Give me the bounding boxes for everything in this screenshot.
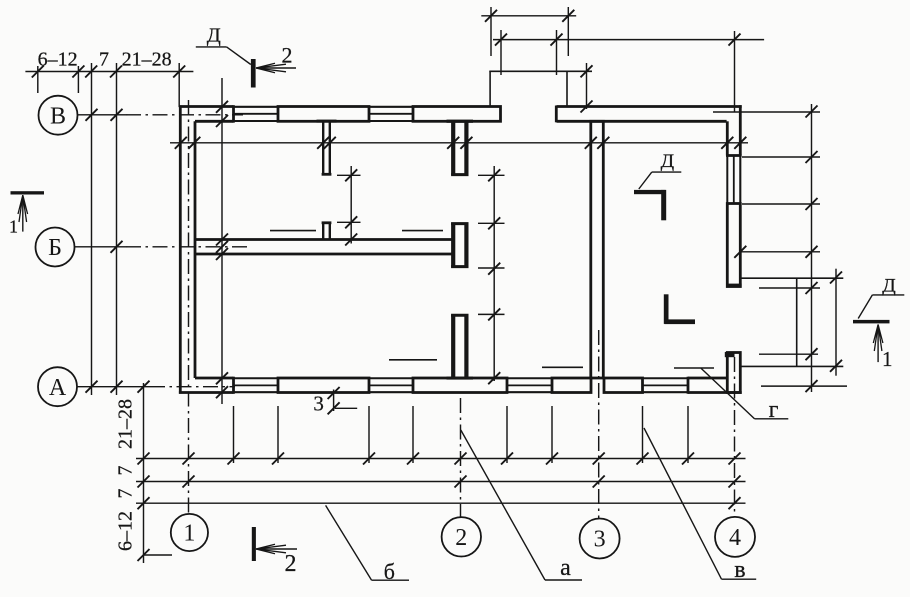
section mark 1 (right): cutting-plane bar <box>853 320 890 324</box>
section mark 2 (top): arrow <box>256 67 296 69</box>
section mark 1 (left): cutting-plane bar <box>11 191 45 194</box>
partition: upper-left rooms divider, stub above axis B partition <box>322 222 324 239</box>
extension line x568 <box>567 7 569 56</box>
wall: left exterior wall (axis 1) <box>179 105 182 393</box>
axis 4 extension above plan <box>734 31 736 112</box>
extension line x179 to wall corner <box>178 63 180 107</box>
partition: axis B partition bottom line <box>194 253 452 256</box>
radiator line big room <box>389 359 437 361</box>
right dimension rail 2 (alcove) <box>835 269 837 376</box>
radiator line right room <box>674 367 714 369</box>
bottom dimension line 1 (openings chain) <box>136 458 746 460</box>
window W2 in top wall <box>369 106 413 108</box>
extension line x501 <box>500 30 502 75</box>
radiator line room2 <box>402 230 443 232</box>
leader г <box>701 368 755 419</box>
svg-text:2: 2 <box>282 43 293 68</box>
partition: upper-left rooms divider, upper segment <box>322 121 324 174</box>
alcove: right wall line <box>796 278 798 366</box>
extension line y288 (wall end) <box>759 287 820 289</box>
ticks on axis B <box>86 109 98 121</box>
wall: right exterior wall upper solid part <box>739 105 742 155</box>
extension line y157 (window top) <box>742 156 820 158</box>
bottom boundary line of 6-12 span <box>144 554 173 556</box>
extension line x491 <box>490 7 492 56</box>
ticks on extension x586 <box>581 65 593 77</box>
svg-text:В: В <box>50 103 66 129</box>
ticks dim line 2 <box>183 476 195 488</box>
extension line x38 <box>37 66 39 93</box>
vestibule: front (top) wall line + extension <box>489 70 592 72</box>
svg-text:а: а <box>560 555 571 581</box>
dimension line top-left <box>25 71 193 73</box>
wall pier: bottom wall below partition column <box>413 378 507 393</box>
window W4 in bottom wall <box>369 377 413 379</box>
partition: axis B partition top line <box>194 238 452 241</box>
internal horizontal dimension line y143 <box>170 142 748 144</box>
svg-text:Б: Б <box>48 235 62 261</box>
wall pier: bottom wall corner pier (axis A) <box>179 391 234 394</box>
axis circle 4 <box>715 517 755 557</box>
flag Д (middle, upper-right room) <box>652 171 682 173</box>
axis line 3 (vertical) <box>598 330 600 519</box>
svg-text:7: 7 <box>115 489 137 499</box>
wall pier: bottom wall between windows W3-W4 <box>278 378 369 393</box>
section mark 2 (top): cutting-plane bar <box>251 59 256 88</box>
ticks on top-left dimension line <box>32 66 44 78</box>
flag Д (right) <box>872 294 904 296</box>
partition column x460: lower segment <box>451 314 455 378</box>
jamb: entrance opening right jamb <box>555 106 558 123</box>
junction bar: partition x326 at top wall <box>317 120 337 123</box>
ticks on x222 chain line <box>216 101 228 113</box>
vestibule: right thin wall <box>566 71 568 106</box>
section mark 1 (right): arrow <box>877 325 879 363</box>
wall pier: top wall right section <box>557 105 742 108</box>
extension stubs to room dim line <box>337 174 361 176</box>
bottom dimension line 2 (axis distances) <box>136 481 746 483</box>
svg-text:А: А <box>49 375 67 401</box>
radiator line room1 <box>270 230 316 232</box>
junction bar: column x460 at bottom wall <box>447 377 474 380</box>
svg-text:Д: Д <box>661 151 675 172</box>
wall pier: top wall between windows W1-W2 <box>278 107 369 122</box>
tick dim line 3 <box>729 497 741 509</box>
svg-text:2: 2 <box>285 551 297 577</box>
svg-text:в: в <box>734 557 745 583</box>
section mark 2 (bottom): cutting-plane bar <box>252 527 256 561</box>
extension line y386 (bottom corner) <box>761 385 847 387</box>
axis circle 2 <box>442 517 481 556</box>
axis line 4 (vertical) <box>734 357 736 517</box>
svg-text:7: 7 <box>99 49 109 71</box>
ticks on hall dim line <box>488 169 500 181</box>
door mark L1 (upper-right room) <box>634 190 665 194</box>
svg-text:3: 3 <box>594 527 606 553</box>
axis circle Б <box>36 228 75 267</box>
wall pier: bottom wall left of interior wall <box>552 378 591 393</box>
ticks on axis A <box>86 381 98 393</box>
axis circle 3 <box>580 519 620 559</box>
internal vertical dimension line in hall <box>493 166 495 381</box>
section mark 1 (left): arrow <box>22 195 24 232</box>
alcove: bottom wall line + extension to rails <box>741 365 843 367</box>
svg-text:21–28: 21–28 <box>115 399 137 449</box>
partition column x460: middle segment <box>451 223 455 268</box>
flag Д (top-left) <box>196 46 227 48</box>
axis line Б (horizontal) <box>75 246 126 248</box>
radiator line hall <box>542 366 583 368</box>
axis line 2 (vertical) <box>460 398 462 517</box>
wall pier: top wall left of entrance opening <box>413 107 501 122</box>
section mark 2 (bottom): arrow <box>256 548 297 550</box>
wall pier: bottom wall right of interior wall <box>604 378 643 393</box>
svg-text:Д: Д <box>207 25 221 47</box>
long extension line x116 <box>116 63 118 395</box>
extension stubs to hall dim line <box>478 174 505 176</box>
door mark L2 (lower-right room) <box>664 294 669 324</box>
ticks right rail 1 <box>806 106 818 118</box>
extension line y354 (corner piece top) <box>759 353 818 355</box>
leader б <box>326 505 372 580</box>
ticks dim line 1 <box>183 453 195 465</box>
svg-text:Д: Д <box>882 276 896 297</box>
extension lines from wall openings down to dimension line 1 <box>233 406 235 463</box>
wall pier: bottom wall right end <box>688 377 727 380</box>
axis circle B <box>39 96 78 135</box>
tick on axis Б <box>111 241 123 253</box>
ticks on internal dim y143 <box>175 137 187 149</box>
axis circle A <box>38 367 77 406</box>
svg-text:7: 7 <box>115 466 137 476</box>
wall pier: top wall corner pier <box>179 105 234 108</box>
svg-text:1: 1 <box>882 347 893 371</box>
right dimension rail 1 <box>811 104 813 392</box>
window W6 in bottom wall <box>643 377 689 379</box>
svg-text:3: 3 <box>313 392 324 416</box>
extension line y252 <box>741 251 820 253</box>
svg-text:г: г <box>769 397 779 423</box>
window W3 in bottom wall <box>234 377 279 379</box>
extension line y112 (top corner) <box>713 111 820 113</box>
svg-text:4: 4 <box>729 525 741 551</box>
leader в <box>644 428 722 579</box>
svg-text:6–12: 6–12 <box>38 49 78 71</box>
svg-text:1: 1 <box>9 217 18 237</box>
axis line B (horizontal) <box>78 114 127 116</box>
vertical dimension rail bottom-left <box>143 383 145 563</box>
callout 3 (tick mark note) <box>333 390 335 412</box>
axis circle 1 <box>171 514 208 551</box>
partition column x460: upper segment <box>451 121 455 175</box>
extension line x78 <box>77 66 79 93</box>
wall stub: door jamb flare at bottom-right corner piece <box>725 352 735 357</box>
alcove: top wall line + extension to rails <box>741 277 843 279</box>
extension line x556 <box>556 30 558 75</box>
svg-text:6–12: 6–12 <box>115 511 137 551</box>
window W7 in right wall <box>726 156 728 204</box>
ticks right rail 2 <box>830 272 842 284</box>
axis line A (horizontal) <box>77 386 150 388</box>
svg-text:1: 1 <box>183 521 195 547</box>
wall cap: right wall middle part bottom end <box>726 284 742 288</box>
dimension line over vestibule (lower, to axis 4) <box>493 39 764 41</box>
wall: right exterior wall bottom corner piece <box>727 353 740 393</box>
extension line y204 (window bottom) <box>742 203 820 205</box>
leader а <box>461 430 545 580</box>
svg-text:21–28: 21–28 <box>122 49 172 71</box>
axis line 1 (vertical) <box>188 100 190 514</box>
wall: right exterior wall middle solid part <box>727 204 740 287</box>
internal vertical dimension line in upper-left room <box>350 166 352 244</box>
extension line x586 <box>586 63 588 109</box>
internal chain extension line x222 <box>221 78 223 404</box>
wall: interior bearing wall (axis 3) <box>591 121 604 378</box>
ticks on left rail <box>138 453 150 465</box>
svg-text:2: 2 <box>455 525 467 551</box>
ticks on room dim line <box>345 169 357 181</box>
window W5 in bottom wall <box>507 377 552 379</box>
long extension line x91 <box>91 63 93 395</box>
svg-text:б: б <box>384 559 395 584</box>
window W1 in top wall <box>234 106 279 108</box>
dimension line over vestibule (upper) <box>481 15 576 17</box>
bottom dimension line 3 (overall) <box>136 502 746 504</box>
vestibule: left thin wall <box>489 71 491 106</box>
junction bar: column x460 at top wall <box>447 120 474 123</box>
